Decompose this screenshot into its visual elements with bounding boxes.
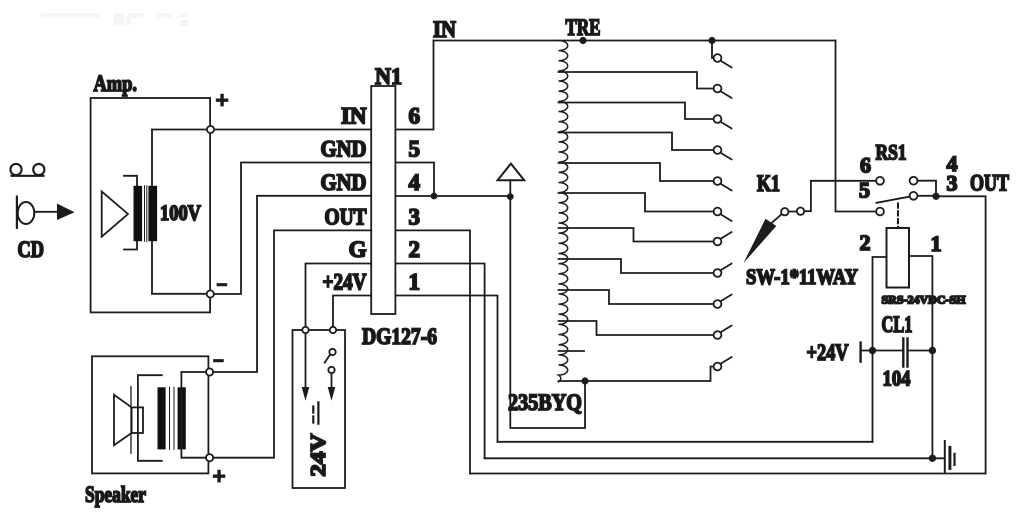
rotary switch contact 3 (714, 115, 732, 128)
junction switch common top (708, 37, 715, 44)
svg-text:DG127-6: DG127-6 (362, 324, 437, 349)
svg-text:RS1: RS1 (876, 140, 907, 165)
rotary switch contact 9 (714, 295, 732, 308)
svg-text:SRS-24VDC-SH: SRS-24VDC-SH (882, 293, 967, 307)
svg-text:6: 6 (409, 103, 421, 128)
RS1 dashed link to relay coil (897, 204, 899, 228)
RS1 blade (877, 197, 910, 203)
junction pin5-pin4 (431, 193, 438, 200)
tap wire 5 (559, 163, 714, 181)
svg-text:5: 5 (409, 137, 421, 162)
amplifier box (91, 98, 211, 312)
RS1 pole 4 (910, 177, 918, 185)
wire T2 to speaker minus node (181, 371, 206, 373)
svg-text:Speaker: Speaker (85, 482, 146, 507)
rotary switch contact 6 (714, 208, 732, 221)
capacitor CL1 left wire (876, 350, 902, 352)
junction TRE top (579, 37, 586, 44)
battery switch contact upper (329, 349, 335, 355)
RS1 contact 5 (876, 208, 884, 216)
svg-text:CD: CD (18, 237, 45, 262)
node speaker plus (206, 454, 213, 461)
svg-text:1: 1 (409, 270, 421, 295)
tap wire 7 (559, 228, 714, 242)
rotary switch contact 10 (714, 326, 732, 339)
svg-text:K1: K1 (757, 171, 780, 196)
wire antenna stem to coil bottom (510, 180, 585, 428)
wire pin1 right drop (395, 296, 497, 442)
svg-text:3: 3 (947, 171, 958, 196)
IC N1 body (371, 86, 395, 314)
svg-text:IN: IN (433, 17, 456, 42)
battery lead left (305, 333, 307, 387)
wire top bus down to RS1 contact 5 (836, 41, 877, 212)
wire +24V1 to battery (333, 296, 371, 327)
battery DC symbol solid line (317, 402, 319, 423)
battery DC symbol dashed line (312, 407, 314, 423)
rotary switch contact 1 (714, 54, 732, 67)
svg-text:2: 2 (409, 237, 421, 262)
node battery terminal left (302, 327, 308, 333)
tap wire 4 (559, 133, 714, 151)
svg-text:+: + (213, 464, 226, 489)
RS1 pole 3 (910, 192, 918, 200)
svg-text:SW-1*11WAY: SW-1*11WAY (746, 264, 858, 289)
wire ground rail (485, 457, 945, 459)
svg-text:2: 2 (860, 230, 871, 255)
svg-text:104: 104 (883, 366, 911, 391)
tap stub unused (559, 350, 585, 352)
switch K1 contact right (797, 208, 804, 215)
rotary switch contact 5 (714, 177, 732, 190)
battery box 24V (293, 330, 346, 488)
rotary switch contact 4 (714, 146, 732, 159)
CD player icon (10, 164, 44, 176)
svg-text:−: − (217, 275, 228, 296)
junction +24V node (869, 347, 876, 354)
wire OUT3 to speaker plus (213, 230, 371, 457)
wire G2 to battery (306, 264, 372, 327)
watermark (41, 13, 188, 26)
relay coil K1 box (887, 228, 910, 288)
svg-text:Amp.: Amp. (94, 71, 138, 96)
wire CD to amp arrow (34, 211, 58, 213)
rotary switch contact 2 (714, 85, 732, 98)
wire pin5 to pin4 net (395, 163, 434, 197)
svg-text:GND: GND (321, 137, 367, 162)
wire pole4 to out node (917, 181, 936, 197)
junction coil bottom (581, 377, 588, 384)
wire GND5 to amp minus (214, 163, 371, 295)
transformer T2 bracket (138, 375, 162, 461)
svg-text:100V: 100V (160, 200, 201, 225)
ground symbol (945, 441, 955, 472)
svg-text:24V: 24V (306, 434, 330, 477)
wire +24V rail (498, 441, 873, 443)
junction out node (932, 193, 939, 200)
junction cap right node (929, 347, 936, 354)
node speaker minus (206, 368, 213, 375)
wire T2 to speaker plus node (181, 457, 206, 459)
wire pin6 to top IN line (395, 41, 433, 130)
svg-text:+24V: +24V (323, 270, 367, 295)
RS1 contact 6 (876, 177, 884, 185)
speaker box (92, 356, 208, 473)
svg-text:−: − (213, 351, 224, 372)
wire common to contact 1 (712, 41, 714, 59)
battery switch lever (325, 354, 331, 362)
speaker cone (114, 387, 143, 454)
svg-text:5: 5 (859, 178, 870, 203)
wire IN row (amp + to N1 pin IN) (152, 129, 371, 131)
node amp plus (207, 126, 214, 133)
svg-text:IN: IN (341, 103, 367, 128)
transformer TRE coil (559, 41, 568, 382)
rotary switch contact 7 (714, 232, 732, 245)
wire pin3 right drop (395, 230, 470, 473)
wiper arrow of rotary switch (767, 214, 782, 227)
tap wire 9 (559, 290, 714, 304)
switch K1 contact left (781, 208, 788, 215)
tap wire 3 (559, 103, 714, 120)
capacitor CL1 plates (903, 339, 907, 367)
battery switch contact lower (328, 367, 334, 373)
svg-text:+: + (216, 88, 229, 113)
+24V terminal bar (859, 343, 861, 362)
svg-text:3: 3 (409, 205, 421, 230)
wire pin4 row (395, 195, 510, 197)
svg-text:CL1: CL1 (882, 312, 913, 337)
svg-text:6: 6 (860, 153, 871, 178)
wire GND4 to speaker minus (213, 196, 371, 372)
tap wire 2 (559, 72, 714, 89)
capacitor CL1 right wire (910, 350, 929, 352)
battery lead right plug arrowhead (328, 387, 336, 401)
svg-text:TRE: TRE (566, 15, 601, 40)
transformer T1 bracket (124, 176, 137, 250)
battery lead left plug arrowhead (302, 387, 310, 401)
wire relay pin1 down to cap right (909, 256, 932, 458)
rotary switch contact 8 (714, 264, 732, 277)
tap wire 8 (559, 259, 714, 273)
wire out node to OUT drop (936, 196, 986, 473)
wire relay pin2 down to +24V node (873, 257, 887, 442)
coil bottom wire to contact 11 (559, 367, 714, 382)
junction ground-cap (929, 455, 936, 462)
svg-text:G: G (349, 237, 367, 262)
top IN bus wire (434, 40, 836, 42)
svg-text:OUT: OUT (970, 171, 1009, 196)
junction pin4 stem (507, 193, 514, 200)
transformer T2 windings (158, 387, 186, 449)
rotary switch contact 11 (714, 357, 732, 370)
transformer T2 secondary wire (180, 372, 182, 458)
svg-text:N1: N1 (375, 64, 402, 89)
wire K1 to RS1 contact 6 (804, 181, 876, 211)
wire OUT bottom rail (470, 473, 986, 475)
wire T1 secondary to amp minus (152, 293, 207, 295)
transformer T1 core lines (145, 186, 147, 241)
antenna triangle symbol (498, 164, 525, 181)
svg-text:GND: GND (321, 170, 367, 195)
transformer T1 windings (134, 186, 158, 241)
tap wire 10 (559, 321, 714, 335)
svg-text:+24V: +24V (807, 340, 849, 365)
wire K1 link (789, 211, 797, 213)
svg-text:OUT: OUT (325, 205, 367, 230)
CD output plug (17, 197, 34, 228)
arrowhead to amp (57, 204, 75, 221)
wire pin2 right drop (395, 264, 484, 459)
svg-text:235BYQ: 235BYQ (508, 390, 582, 415)
node battery terminal right (330, 327, 336, 333)
tap wire 6 (559, 193, 714, 212)
transformer T1 primary wire (151, 130, 153, 294)
op-amp triangle (102, 192, 128, 237)
wire pole3 to out node (917, 195, 936, 197)
transformer T2 core lines (170, 387, 175, 449)
svg-text:1: 1 (931, 231, 942, 256)
battery lead right (331, 373, 333, 387)
wire terminal to +24V node (862, 350, 870, 352)
svg-text:4: 4 (409, 170, 421, 195)
node amp minus (207, 290, 214, 297)
